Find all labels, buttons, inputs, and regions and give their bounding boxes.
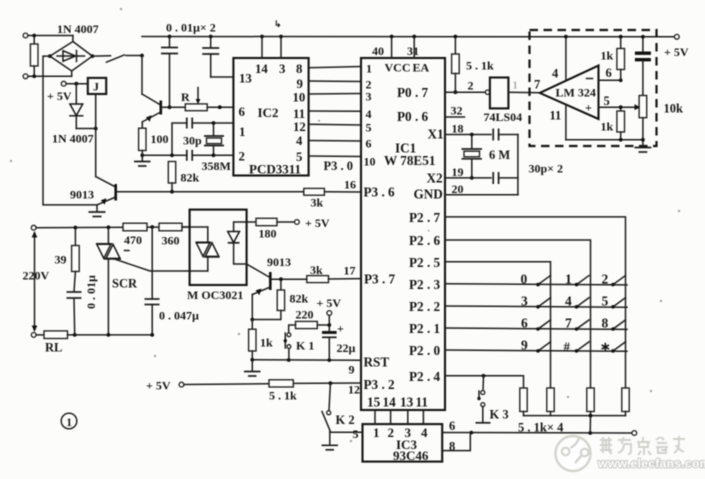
svg-text:180: 180	[259, 227, 277, 241]
capacitor 30p X2	[493, 172, 518, 184]
terminal mains top	[31, 225, 189, 230]
node circled 1 figure label	[61, 413, 77, 429]
wire P2.5 row to col1	[445, 262, 551, 388]
svg-text:11: 11	[416, 395, 428, 410]
wire P2.6 row to col2	[445, 240, 591, 388]
svg-text:3: 3	[279, 62, 285, 76]
svg-text:17: 17	[344, 264, 356, 278]
svg-text:22µ: 22µ	[337, 341, 356, 355]
capacitor 0.01u A	[161, 35, 178, 110]
svg-text:2: 2	[239, 150, 245, 164]
svg-text:13: 13	[400, 395, 414, 410]
wire bridge minus loop to ground	[43, 56, 97, 205]
svg-text:www.elecfans.com: www.elecfans.com	[597, 457, 705, 471]
svg-text:5 . 1k: 5 . 1k	[466, 59, 494, 73]
svg-text:5: 5	[602, 294, 609, 309]
wire IC2 pin8 to IC1 pin1	[309, 67, 361, 68]
svg-text:5 . 1k: 5 . 1k	[269, 389, 297, 403]
wire P0.6 stub	[445, 116, 465, 118]
svg-text:11: 11	[550, 109, 562, 123]
capacitor 0.047u	[145, 227, 160, 337]
terminal line-in bottom	[23, 74, 72, 79]
resistor 100	[139, 122, 146, 161]
relay J	[88, 78, 106, 94]
key 3	[521, 294, 551, 309]
key star	[602, 342, 626, 353]
switch K1	[284, 333, 291, 360]
svg-text:13: 13	[239, 72, 252, 86]
svg-text:2: 2	[602, 271, 609, 286]
svg-text:+ 5V: + 5V	[47, 89, 72, 103]
svg-text:6: 6	[449, 419, 455, 433]
svg-text:SCR: SCR	[112, 277, 138, 291]
wire relay coil to Q1 base	[95, 94, 97, 177]
wire IC2 pin4 to IC1 pin6	[309, 140, 361, 143]
svg-text:9: 9	[521, 338, 528, 353]
op IC2 PCD3311 box	[233, 58, 308, 176]
svg-text:32: 32	[451, 104, 463, 118]
svg-text:18: 18	[452, 122, 464, 136]
svg-text:1: 1	[373, 425, 380, 440]
wire P2.1 keypad row 3	[445, 328, 627, 329]
svg-text:9: 9	[297, 77, 303, 91]
resistor 5.1k pullup D	[622, 388, 629, 416]
resistor 180	[256, 218, 295, 225]
capacitor 30p lower	[142, 150, 233, 161]
svg-text:39: 39	[55, 253, 67, 267]
wire P2.7 row to col3	[445, 217, 626, 388]
svg-text:1: 1	[565, 271, 572, 286]
resistor RL	[44, 331, 152, 339]
svg-text:3: 3	[521, 294, 528, 309]
resistor line input	[30, 34, 38, 79]
wire +5V top rail	[142, 36, 674, 38]
svg-text:40: 40	[372, 44, 384, 58]
wire resistor common	[524, 414, 626, 433]
wire IC2 pin10 to IC1 pin3	[309, 93, 361, 96]
svg-text:P2 . 6: P2 . 6	[409, 233, 441, 248]
svg-text:+ 5V: + 5V	[664, 45, 689, 59]
svg-text:1: 1	[66, 417, 72, 429]
svg-text:P2 . 0: P2 . 0	[409, 343, 441, 358]
svg-text:X2: X2	[427, 170, 444, 185]
crystal 358M	[204, 121, 224, 157]
wire IC3 pin6 bottom line to terminal	[442, 431, 636, 436]
svg-text:P3 . 2: P3 . 2	[364, 377, 396, 392]
svg-text:360: 360	[162, 234, 180, 248]
svg-text:6: 6	[606, 66, 612, 80]
wire P3.2 line	[184, 381, 361, 385]
switch K3	[477, 376, 485, 422]
svg-text:1k: 1k	[601, 120, 614, 134]
svg-text:5: 5	[366, 121, 372, 135]
svg-text:1N 4007: 1N 4007	[57, 22, 99, 36]
wire P2.0 keypad row 4	[445, 350, 627, 351]
svg-text:GND: GND	[414, 186, 443, 201]
transistor Q2 9013 dial-tone	[142, 56, 185, 122]
svg-text:RST: RST	[364, 355, 390, 370]
wire IC3 pin8 loop	[442, 433, 470, 451]
svg-text:9013: 9013	[70, 188, 94, 202]
resistor 1k Q3 emitter	[249, 295, 256, 371]
svg-text:4: 4	[366, 107, 372, 121]
svg-text:+: +	[337, 322, 344, 336]
key 6	[521, 316, 551, 331]
svg-text:P3 . 6: P3 . 6	[364, 184, 396, 199]
svg-text:30p× 2: 30p× 2	[529, 162, 564, 176]
svg-text:+ 5V: + 5V	[146, 379, 171, 393]
svg-text:3k: 3k	[310, 263, 323, 277]
svg-text:M OC3021: M OC3021	[187, 288, 243, 302]
wire P2.4 line	[445, 374, 524, 388]
wire IC2 pin11 to IC1 pin4	[309, 110, 361, 112]
key 2	[602, 271, 626, 286]
wire IC1 pin11 to IC3 pin4	[422, 410, 424, 424]
resistor 39	[72, 226, 80, 337]
svg-text:74LS04: 74LS04	[484, 110, 523, 124]
wire hook-switch	[92, 54, 144, 63]
svg-text:1: 1	[366, 62, 372, 76]
wire IC2 pin14 to rail	[260, 35, 264, 58]
resistor 1k lower	[617, 105, 625, 141]
op MOC3021 box	[190, 210, 247, 285]
svg-text:6: 6	[239, 105, 246, 119]
svg-text:0: 0	[521, 271, 528, 286]
triac SCR	[96, 225, 129, 336]
ground Q3	[244, 372, 261, 377]
svg-text:8: 8	[296, 62, 302, 76]
svg-text:+ 5V: + 5V	[317, 296, 342, 310]
capacitor 22u	[322, 331, 337, 360]
transistor Q1 9013	[96, 177, 171, 205]
svg-text:1: 1	[513, 81, 518, 92]
wire pin6 inverting input	[599, 78, 623, 82]
svg-text:3k: 3k	[311, 196, 324, 210]
svg-text:EA: EA	[413, 61, 430, 75]
key hash	[564, 339, 590, 354]
svg-text:P3 . 0: P3 . 0	[324, 159, 354, 173]
transistor Q3 9013	[247, 264, 307, 295]
svg-text:K 2: K 2	[336, 413, 355, 427]
wire SCR gate	[114, 259, 208, 271]
svg-text:1: 1	[239, 125, 245, 139]
ground 100 resistor	[134, 162, 151, 167]
svg-text:7: 7	[534, 78, 540, 92]
svg-text:P2 . 7: P2 . 7	[409, 210, 441, 225]
terminal mains bottom	[31, 333, 44, 338]
svg-text:8: 8	[449, 440, 455, 454]
svg-text:+ 5V: + 5V	[305, 216, 330, 230]
svg-text:J: J	[93, 80, 99, 94]
wire IC1 pin31 EA to rail	[412, 35, 416, 58]
svg-text:1N 4007: 1N 4007	[52, 132, 94, 146]
svg-text:15: 15	[367, 395, 381, 410]
wire RST line	[252, 358, 361, 362]
terminal +5V 180	[295, 220, 300, 225]
terminal line-in top	[23, 33, 73, 38]
op-amp U1 LM324	[540, 66, 599, 120]
svg-text:#: #	[564, 339, 571, 354]
IC1 inner labels	[364, 61, 444, 410]
svg-text:9013: 9013	[267, 255, 291, 269]
wire IC2 pin5 to IC1 pin10 P3.0	[309, 155, 361, 158]
capacitor 30p X1	[493, 129, 518, 141]
key 8	[602, 316, 626, 331]
svg-text:8: 8	[602, 316, 609, 331]
wire IC2 pin3 to rail	[279, 35, 283, 58]
svg-text:5 . 1k× 4: 5 . 1k× 4	[518, 421, 564, 435]
svg-text:10: 10	[364, 155, 376, 169]
wire IC2 pin12 to IC1 pin5	[309, 123, 361, 126]
ground K3	[476, 422, 491, 424]
resistor R trimmer	[185, 88, 233, 111]
svg-text:20: 20	[452, 182, 464, 196]
resistor 5.1k pullup C	[587, 388, 594, 416]
wire IC1 pin15 to IC3 pin1	[374, 410, 376, 424]
svg-text:220: 220	[296, 308, 314, 322]
wire P3.6 line	[171, 191, 361, 193]
key 5	[602, 294, 626, 309]
svg-text:+: +	[585, 101, 592, 115]
svg-text:5: 5	[353, 427, 359, 441]
resistor 360	[159, 223, 208, 231]
key 1	[565, 271, 589, 286]
key 7	[565, 316, 589, 331]
svg-text:↳: ↳	[274, 19, 282, 29]
wire IC1 pin40 VCC to rail	[390, 35, 394, 58]
svg-text:6: 6	[521, 316, 528, 331]
svg-text:P2 . 1: P2 . 1	[409, 321, 440, 336]
svg-text:P0 . 6: P0 . 6	[397, 109, 429, 124]
resistor 5.1k P0.7 pullup	[452, 35, 460, 95]
svg-text:0 . 01µ: 0 . 01µ	[84, 275, 98, 309]
svg-text:14: 14	[255, 62, 268, 76]
svg-text:2: 2	[388, 425, 395, 440]
resistor 82k osc	[168, 162, 175, 194]
svg-text:1k: 1k	[601, 49, 614, 63]
capacitor 0.01u B	[202, 35, 233, 77]
svg-text:12: 12	[348, 383, 360, 397]
terminal +5V P3.2	[179, 382, 184, 387]
svg-text:82k: 82k	[290, 292, 309, 306]
wire P2.3 keypad row 1	[445, 284, 627, 285]
ground Q1 emitter	[89, 205, 106, 217]
watermark logo circle	[556, 436, 591, 471]
resistor 3k P3.7	[307, 276, 361, 283]
wire GND pin20	[445, 135, 518, 195]
svg-text:P2 . 4: P2 . 4	[409, 369, 441, 384]
terminal +5V K1	[327, 311, 332, 332]
svg-text:1k: 1k	[260, 336, 273, 350]
svg-text:R: R	[181, 90, 190, 104]
capacitor top right	[635, 35, 651, 96]
svg-text:10k: 10k	[664, 102, 684, 116]
arrow 220V span	[32, 231, 38, 332]
svg-text:RL: RL	[45, 341, 62, 355]
svg-text:4: 4	[296, 134, 303, 148]
svg-text:LM 324: LM 324	[556, 86, 596, 100]
ground K2	[322, 445, 339, 450]
IC2 pin labels	[239, 62, 306, 177]
resistor 220	[289, 321, 331, 332]
svg-text:6 M: 6 M	[489, 148, 510, 162]
svg-text:7: 7	[565, 316, 572, 331]
IC3 labels	[373, 425, 429, 463]
svg-text:4: 4	[552, 67, 559, 81]
wire pin11 to bottom	[566, 105, 643, 140]
svg-text:P0 . 7: P0 . 7	[397, 85, 429, 100]
wire IC1 pin13 to IC3 pin3	[407, 410, 409, 424]
svg-text:P2 . 5: P2 . 5	[409, 255, 441, 270]
key 9	[521, 338, 551, 353]
svg-text:11: 11	[293, 107, 305, 121]
dashed box LM324	[530, 30, 657, 146]
wire pin5 non-inverting with wiper arrow	[599, 104, 641, 110]
diode LED MOC internal	[228, 222, 256, 264]
svg-text:19: 19	[452, 165, 464, 179]
watermark chinese text	[600, 436, 685, 455]
triac MOC internal	[196, 227, 220, 271]
svg-text:IC2: IC2	[258, 105, 279, 120]
svg-text:10: 10	[293, 91, 306, 105]
svg-text:K 3: K 3	[490, 408, 509, 422]
svg-text:14: 14	[383, 395, 397, 410]
svg-text:P2 . 2: P2 . 2	[409, 299, 441, 314]
wire P0.7 to 74LS04	[445, 90, 490, 94]
ground LM324	[635, 148, 652, 153]
switch K2	[322, 383, 331, 444]
svg-text:W 78E51: W 78E51	[384, 153, 435, 168]
svg-text:31: 31	[407, 44, 419, 58]
svg-text:30p: 30p	[183, 134, 202, 148]
svg-text:2: 2	[468, 79, 474, 93]
svg-text:82k: 82k	[181, 171, 200, 185]
svg-text:P2 . 3: P2 . 3	[409, 277, 441, 292]
wire X1 line	[445, 133, 491, 137]
svg-text:PCD3311: PCD3311	[249, 162, 301, 177]
svg-text:12: 12	[293, 120, 306, 134]
wire IC2 pin9 to IC1 pin2	[309, 80, 361, 83]
resistor 1k upper	[617, 35, 625, 81]
resistor 5.1k pullup B	[547, 388, 554, 416]
svg-text:5: 5	[604, 94, 610, 108]
svg-text:4: 4	[421, 425, 428, 440]
wire P2.2 keypad row 2	[445, 306, 627, 307]
wire pin4 to rail	[564, 35, 568, 80]
crystal 6M	[462, 135, 483, 180]
svg-text:VCC: VCC	[385, 61, 411, 75]
gate 74LS04	[490, 78, 540, 109]
svg-text:4: 4	[565, 294, 572, 309]
svg-text:16: 16	[344, 178, 356, 192]
svg-text:P3 . 7: P3 . 7	[364, 272, 396, 287]
resistor 3k P3.6	[304, 188, 325, 195]
svg-text:6: 6	[366, 137, 372, 151]
svg-text:470: 470	[124, 233, 142, 247]
potentiometer 10k	[639, 96, 647, 148]
resistor 5.1k P3.2	[269, 380, 293, 387]
svg-text:100: 100	[151, 132, 169, 146]
op IC1 W78E51 box	[361, 58, 445, 410]
diode 1N4007 flyback	[70, 84, 98, 131]
svg-text:0 . 01µ× 2: 0 . 01µ× 2	[166, 21, 216, 35]
svg-text:9: 9	[349, 363, 355, 377]
svg-text:93C46: 93C46	[393, 448, 429, 463]
key 0	[521, 271, 551, 286]
svg-text:0 . 047µ: 0 . 047µ	[159, 309, 199, 323]
resistor 470	[123, 223, 154, 231]
terminal +5V relay	[61, 81, 88, 86]
svg-text:220V: 220V	[23, 269, 50, 283]
svg-text:358M: 358M	[202, 159, 231, 173]
resistor 82k Q3	[250, 279, 284, 321]
key 4	[565, 294, 589, 309]
svg-text:X1: X1	[428, 127, 444, 142]
capacitor 0.01u snubber	[67, 292, 82, 335]
bridge rectifier 1N4007	[48, 36, 94, 77]
wire K2 to IC3 pin5	[330, 431, 363, 433]
wire X2 line	[445, 177, 491, 179]
op IC3 93C46 box	[363, 424, 443, 462]
capacitor 30p upper	[172, 118, 233, 156]
resistor 5.1k pullup A	[520, 388, 527, 416]
svg-text:K 1: K 1	[296, 339, 314, 353]
wire IC1 pin14 to IC3 pin2	[390, 410, 392, 424]
terminal +5V top right	[674, 34, 679, 39]
svg-text:3: 3	[366, 90, 372, 104]
